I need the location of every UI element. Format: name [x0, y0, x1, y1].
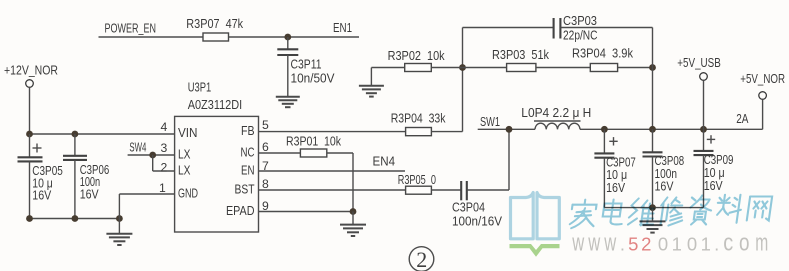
- node output ground junction: [649, 204, 656, 211]
- svg-text:BST: BST: [235, 183, 255, 197]
- svg-text:LX: LX: [178, 148, 191, 162]
- pin 8 BST: [235, 177, 270, 197]
- svg-text:A0Z3112DI: A0Z3112DI: [188, 98, 243, 112]
- wire output bottom rail: [604, 207, 703, 209]
- svg-text:+5V_NOR: +5V_NOR: [740, 71, 785, 86]
- svg-text:.: .: [714, 234, 719, 255]
- capacitor C3P03: [554, 14, 598, 43]
- ground C3P11: [276, 97, 300, 107]
- resistor R3P01 10k: [286, 134, 342, 157]
- pin 4 VIN: [161, 120, 198, 140]
- wire output vertical: [652, 28, 654, 130]
- page number 2: [409, 247, 434, 271]
- wire SW4 to LX pin3: [128, 154, 175, 156]
- wire NC to R3P01: [259, 152, 301, 154]
- wire EN pin stub: [259, 170, 406, 172]
- node C3P09 top: [700, 126, 707, 133]
- svg-text:R3P01 10k: R3P01 10k: [286, 134, 342, 148]
- svg-text:C3P03: C3P03: [563, 14, 597, 28]
- node EN1 junction: [284, 34, 291, 41]
- node SW4 junction: [149, 152, 156, 159]
- wire EPAD stub: [259, 211, 354, 213]
- wire +12V_NOR down to VIN rail: [29, 87, 31, 134]
- node EPAD ground junction: [350, 208, 357, 215]
- wire C3P03 branch right: [560, 27, 652, 29]
- svg-text:0: 0: [687, 234, 697, 255]
- pin 2 LX: [161, 160, 191, 177]
- svg-text:2A: 2A: [736, 111, 748, 126]
- wire VIN rail: [30, 133, 175, 135]
- svg-text:w: w: [572, 230, 585, 257]
- svg-text:FB: FB: [241, 124, 255, 138]
- svg-text:EPAD: EPAD: [226, 204, 255, 218]
- terminal +5V_USB: [677, 55, 721, 130]
- resistor R3P02 10k: [388, 49, 446, 72]
- ground R3P02: [359, 86, 384, 97]
- svg-text:R3P05 0: R3P05 0: [398, 173, 436, 187]
- capacitor C3P11: [277, 37, 335, 97]
- wire R3P05 to C3P04: [431, 189, 461, 191]
- resistor R3P04 3.9k: [572, 47, 634, 72]
- wire POWER_EN to R3P07: [99, 36, 204, 38]
- wire R3P04 to output node: [618, 67, 653, 69]
- wire GND pin to rail: [119, 194, 174, 219]
- svg-text:C3P04: C3P04: [452, 200, 485, 214]
- wire R3P07 to EN1: [229, 36, 360, 38]
- node C3P08 top: [649, 126, 656, 133]
- svg-text:U3P1: U3P1: [188, 81, 212, 95]
- svg-text:16V: 16V: [32, 189, 51, 203]
- svg-text:5: 5: [628, 234, 638, 255]
- ground input rail: [106, 219, 132, 246]
- svg-text:EN: EN: [241, 164, 255, 178]
- svg-text:GND: GND: [178, 187, 198, 201]
- svg-text:EN4: EN4: [373, 154, 396, 169]
- pin 5 FB: [241, 118, 269, 138]
- node GND junction: [116, 215, 123, 222]
- svg-text:1: 1: [159, 181, 166, 195]
- svg-text:10n/50V: 10n/50V: [291, 71, 336, 85]
- inductor L0P4 2.2uH: [521, 106, 591, 130]
- svg-text:POWER_EN: POWER_EN: [105, 21, 157, 36]
- svg-text:16V: 16V: [80, 187, 99, 201]
- resistor R3P03 51k: [492, 48, 550, 72]
- svg-text:m: m: [755, 230, 768, 257]
- svg-text:0: 0: [658, 234, 668, 255]
- svg-text:16V: 16V: [606, 181, 625, 195]
- pin 6 NC: [241, 140, 270, 160]
- node C3P05 top: [26, 131, 33, 138]
- svg-text:1: 1: [701, 234, 711, 255]
- capacitor C3P06: [63, 134, 109, 219]
- svg-text:SW1: SW1: [480, 114, 500, 129]
- capacitor C3P08: [643, 129, 685, 207]
- svg-text:c: c: [723, 230, 733, 257]
- capacitor C3P09: [694, 129, 734, 207]
- svg-text:LX: LX: [178, 164, 191, 178]
- svg-text:.: .: [620, 234, 625, 255]
- svg-text:w: w: [588, 230, 601, 257]
- svg-text:R3P02 10k: R3P02 10k: [388, 49, 446, 63]
- svg-text:16V: 16V: [655, 180, 674, 194]
- svg-text:SW4: SW4: [129, 140, 146, 155]
- svg-text:EN1: EN1: [333, 20, 352, 35]
- svg-text:8: 8: [262, 177, 269, 191]
- wire R3P03 to R3P04: [536, 67, 590, 69]
- svg-text:2: 2: [416, 247, 427, 271]
- watermark chinese characters: [569, 195, 772, 228]
- wire SW4 to LX pin2: [153, 155, 175, 171]
- watermark logo book icon: [510, 193, 560, 257]
- svg-text:22p/NC: 22p/NC: [563, 29, 598, 43]
- node C3P05 bottom: [26, 215, 33, 222]
- svg-text:+12V_NOR: +12V_NOR: [4, 63, 58, 78]
- node C3P06 top: [72, 131, 79, 138]
- svg-text:5: 5: [262, 118, 269, 132]
- node divider right: [649, 64, 656, 71]
- svg-text:100n/16V: 100n/16V: [452, 214, 503, 228]
- svg-text:6: 6: [262, 140, 269, 154]
- svg-text:o: o: [739, 230, 750, 257]
- pin 9 EPAD: [226, 199, 269, 218]
- wire output rail: [580, 128, 763, 130]
- svg-text:R3P04 33k: R3P04 33k: [391, 112, 446, 126]
- node divider left: [459, 64, 466, 71]
- svg-text:NC: NC: [241, 146, 255, 160]
- svg-text:w: w: [604, 230, 617, 257]
- ground output caps: [640, 208, 666, 233]
- svg-text:2: 2: [161, 160, 168, 174]
- pin 1 GND: [159, 181, 198, 201]
- node C3P06 bottom: [72, 215, 79, 222]
- wire FB to R3P04: [259, 131, 406, 133]
- wire R3P04 to feedback node: [431, 131, 462, 133]
- wire R3P01 to EPAD vertical: [327, 153, 353, 212]
- capacitor C3P05: [18, 134, 63, 219]
- terminal +12V_NOR: [4, 63, 58, 88]
- capacitor C3P07: [594, 129, 635, 207]
- resistor R3P05 0: [398, 173, 436, 194]
- capacitor C3P04: [452, 181, 503, 228]
- wire R3P02 ground leg: [371, 68, 404, 86]
- wire BST to R3P05: [259, 189, 406, 191]
- ground EPAD: [340, 212, 366, 237]
- svg-text:1: 1: [672, 234, 682, 255]
- terminal +5V_NOR: [740, 71, 785, 129]
- wire input bottom rail: [30, 218, 120, 220]
- IC U3P1 AOZ3112DI: [175, 81, 259, 233]
- wire R3P02 to R3P03: [431, 67, 506, 69]
- resistor R3P04 33k: [391, 112, 446, 136]
- svg-text:L0P4 2.2 μ H: L0P4 2.2 μ H: [521, 106, 591, 120]
- resistor R3P07 47k: [186, 17, 243, 41]
- node C3P07 top: [601, 126, 608, 133]
- svg-text:C3P07: C3P07: [606, 155, 636, 169]
- svg-text:+5V_USB: +5V_USB: [677, 55, 721, 70]
- wire SW1 to inductor: [478, 128, 535, 130]
- svg-text:4: 4: [161, 120, 168, 134]
- pin 3 LX: [161, 141, 191, 162]
- wire feedback vertical: [462, 28, 464, 132]
- svg-text:VIN: VIN: [178, 126, 198, 140]
- pin 7 EN: [241, 159, 269, 178]
- svg-text:C3P09: C3P09: [704, 153, 734, 167]
- wire C3P03 branch left: [463, 27, 554, 29]
- svg-text:R3P03 51k: R3P03 51k: [492, 48, 550, 62]
- svg-text:3: 3: [161, 141, 168, 155]
- svg-text:C3P11: C3P11: [291, 58, 322, 72]
- svg-text:R3P04 3.9k: R3P04 3.9k: [572, 47, 634, 61]
- watermark url www.520101.com: [572, 230, 769, 257]
- svg-text:16V: 16V: [704, 179, 723, 193]
- svg-text:R3P07 47k: R3P07 47k: [186, 17, 243, 31]
- node SW1 junction: [506, 126, 513, 133]
- wire C3P04 to SW1 node: [467, 129, 509, 190]
- svg-text:2: 2: [641, 234, 651, 255]
